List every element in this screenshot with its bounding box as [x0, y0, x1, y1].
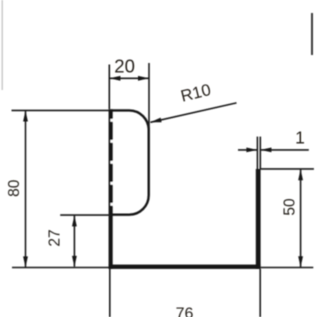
svg-text:20: 20 — [114, 55, 135, 76]
svg-text:27: 27 — [46, 229, 63, 246]
svg-text:80: 80 — [6, 179, 23, 197]
svg-text:76: 76 — [176, 306, 194, 317]
svg-text:50: 50 — [282, 198, 299, 216]
svg-text:1: 1 — [295, 127, 305, 147]
